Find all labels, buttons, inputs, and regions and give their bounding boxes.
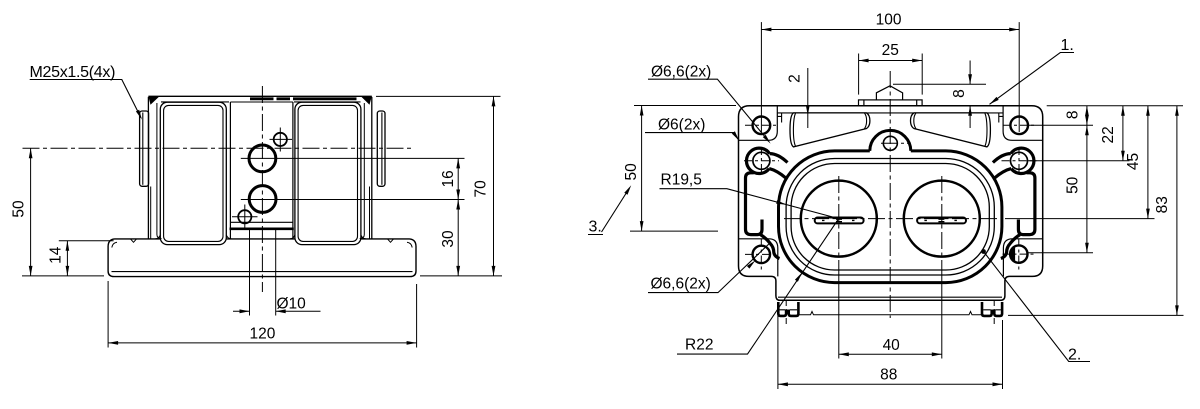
- top view: corner screw pockets: [739, 106, 1043, 277]
- svg-text:1.: 1.: [1061, 37, 1074, 54]
- top view: seal ring inner 2 R19,5: [791, 164, 989, 271]
- top view: left lid screw boss circle: [801, 181, 877, 257]
- dimension 14: [59, 241, 114, 276]
- top view: feet centerlines: [786, 300, 994, 324]
- dimension 50 left: [630, 106, 736, 232]
- svg-text:8: 8: [1064, 110, 1081, 119]
- dimension 16: [456, 158, 460, 199]
- top view: corner hole TR: [1010, 117, 1028, 135]
- top view: corner hole TL: [753, 117, 771, 135]
- front view: pod base fillets: [155, 235, 366, 239]
- dimension 50 right: [1028, 125, 1093, 252]
- front view: base flange outline: [108, 239, 416, 277]
- svg-text:Ø6,6(2x): Ø6,6(2x): [651, 276, 711, 293]
- top view: top center hole: [883, 136, 897, 150]
- svg-text:2: 2: [786, 74, 803, 83]
- svg-text:100: 100: [876, 12, 902, 29]
- front view: top edge dark gasket band: [250, 97, 357, 100]
- front view: top corner chamfer fills: [148, 96, 159, 105]
- dimension 50 left: [22, 148, 104, 276]
- front view: hole center extension lines: [241, 158, 465, 199]
- svg-text:Ø6(2x): Ø6(2x): [658, 117, 705, 134]
- svg-text:22: 22: [1100, 126, 1117, 143]
- top view: tab peak: [876, 86, 902, 100]
- dimension Ø10: [233, 229, 321, 316]
- front view: small hole lower: [238, 210, 251, 223]
- dimension 2: [807, 68, 809, 128]
- dimension 8 top: [893, 61, 986, 129]
- top view: vertical centerline: [889, 71, 891, 318]
- svg-text:R22: R22: [685, 337, 713, 354]
- top view: left wing plate: [790, 113, 870, 147]
- svg-text:25: 25: [882, 42, 899, 59]
- front view: inner top lines: [161, 101, 361, 103]
- svg-text:3.: 3.: [589, 219, 602, 236]
- dimension 120: [108, 281, 417, 348]
- dimension 70: [376, 96, 501, 276]
- top view: left edge gasket squiggle: [746, 148, 788, 258]
- front view: left pod inner: [164, 105, 223, 241]
- top view: right wing plate: [911, 113, 991, 147]
- svg-text:16: 16: [440, 170, 457, 187]
- front view: side wall inner edges: [151, 103, 370, 239]
- front view: center channel walls: [230, 102, 293, 239]
- front view: vertical centerline: [261, 86, 263, 292]
- svg-text:120: 120: [249, 325, 275, 342]
- svg-text:8: 8: [951, 89, 968, 98]
- dimension 8 right: [1028, 106, 1183, 126]
- top view: inner bottom line: [778, 296, 1002, 298]
- front view: left cable gland M25: [140, 111, 149, 186]
- top view: side hole left Ø6: [753, 152, 770, 169]
- svg-text:70: 70: [472, 180, 489, 198]
- svg-text:50: 50: [11, 200, 28, 218]
- top view: boss centerlines: [784, 176, 998, 262]
- front view: upper lid screw hole: [249, 145, 276, 172]
- svg-text:Ø10: Ø10: [277, 295, 307, 312]
- top view: cover plate outline: [739, 106, 1043, 300]
- front view: enclosure body outline: [148, 96, 371, 239]
- top view: right screw slot: [917, 218, 966, 224]
- top view: inner top line: [777, 112, 1003, 114]
- front view: lower lid screw hole: [249, 186, 276, 213]
- top view: corner hole BR: [1010, 245, 1027, 262]
- top view: corner hole BL: [753, 246, 770, 263]
- dimension 88: [778, 305, 1003, 389]
- top view: rib marks near wings: [777, 113, 1003, 123]
- svg-text:83: 83: [1154, 196, 1171, 213]
- front view: horizontal centerline: [23, 147, 413, 149]
- top view: seal ring inner 1: [786, 159, 994, 276]
- svg-text:45: 45: [1125, 153, 1142, 170]
- svg-text:40: 40: [883, 337, 901, 354]
- top view: bottom connecting lines: [798, 312, 982, 315]
- top view: right edge gasket squiggle: [993, 148, 1035, 258]
- top view: hinge tab bar 25: [859, 100, 923, 106]
- front view: right pod inner: [298, 105, 357, 241]
- dimension 45: [1005, 106, 1155, 219]
- front view: small hole upper: [274, 133, 287, 146]
- top view: gasket groove outer stadium R22: [779, 130, 1002, 282]
- dimension 25: [859, 54, 923, 95]
- dimension 40: [839, 262, 942, 359]
- svg-text:14: 14: [48, 246, 65, 264]
- svg-text:M25x1.5(4x): M25x1.5(4x): [30, 64, 116, 81]
- dimension 22: [1028, 106, 1130, 161]
- dimension 100: [761, 22, 1019, 132]
- svg-text:30: 30: [440, 230, 457, 248]
- svg-text:50: 50: [623, 163, 640, 181]
- front view: right pod outer: [295, 102, 361, 244]
- front view: right cable gland M25: [377, 111, 385, 186]
- svg-text:Ø6,6(2x): Ø6,6(2x): [651, 64, 711, 81]
- top view: left screw slot: [815, 218, 864, 224]
- dimension 83: [1008, 106, 1184, 316]
- top view: side hole right Ø6: [1011, 152, 1028, 169]
- front view: flange corner details: [112, 239, 412, 248]
- svg-text:R19,5: R19,5: [661, 172, 702, 189]
- front view: left pod outer: [160, 102, 226, 244]
- top view: right lid screw boss circle: [904, 181, 980, 257]
- svg-text:88: 88: [880, 366, 897, 383]
- dimension 30: [420, 200, 502, 276]
- svg-text:50: 50: [1064, 176, 1081, 194]
- top view: bottom feet: [778, 302, 1002, 316]
